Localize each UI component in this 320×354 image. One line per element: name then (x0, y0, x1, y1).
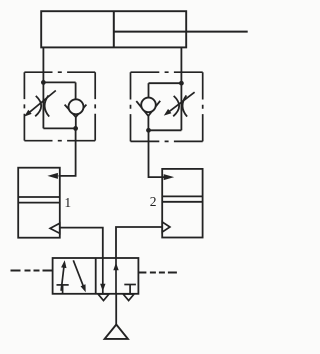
throttle adjustment arrow FC2 (168, 92, 195, 112)
flow control unit FC1 enclosure (dash-dot) (24, 71, 95, 73)
svg-text:2: 2 (150, 194, 157, 209)
box 2 outlet open arrow (162, 222, 170, 232)
directional valve V1 body (53, 258, 139, 294)
pressure source triangle (105, 325, 128, 339)
wire: FC2 inner bottom (149, 129, 182, 131)
wire: FC2 check branch top (148, 83, 150, 98)
exhaust triangle under V1 port 3 (98, 294, 109, 301)
wire: FC2 inner top (149, 82, 182, 84)
box 1 outlet open arrow (50, 223, 60, 233)
flow control unit FC2 enclosure (dash-dot) (131, 71, 203, 73)
V1 left actuator line (dash) (11, 270, 53, 272)
check valve seat in FC1 (65, 105, 87, 117)
wire: box 2 to valve port (116, 227, 162, 258)
wire: V1 supply port down (115, 294, 117, 325)
node: FC2 top junction (179, 81, 184, 86)
cylinder piston rod (114, 31, 248, 33)
box 1 inlet arrow (filled) (47, 173, 58, 179)
V1 right position exhaust path (down arrow) (102, 258, 104, 294)
box 2 inlet arrow (filled) (164, 174, 175, 180)
check valve ball in FC2 (141, 98, 156, 113)
V1 right position supply path (up arrow) (115, 258, 117, 294)
wire: below check valve FC2 (147, 115, 149, 130)
wire: FC1 outlet to box 1 (59, 128, 76, 176)
svg-text:1: 1 (64, 195, 71, 210)
wire: box 1 to valve port (60, 228, 103, 258)
check valve ball in FC1 (69, 99, 84, 114)
check valve seat in FC2 (136, 101, 160, 116)
wire: FC2 outlet to box 2 (149, 130, 165, 177)
V1 left position down-right arrow (73, 260, 84, 289)
valve box 2 body (162, 169, 202, 238)
V1 right actuator line (dash) (138, 272, 177, 274)
V1 right position blocked port T (124, 284, 136, 286)
wire: below check valve FC1 (75, 116, 77, 128)
V1 left position blocked port T (57, 284, 69, 286)
throttle valve (adjustable restrictor) in FC1 (35, 96, 41, 116)
throttle valve (adjustable restrictor) in FC2 (173, 96, 179, 116)
node: FC1 bottom junction (73, 126, 78, 131)
wire: FC1 inner bottom (43, 127, 75, 129)
wire: FC2 throttle branch (180, 83, 182, 130)
wire: FC1 throttle branch (42, 82, 44, 128)
exhaust triangle under V1 blocked port (123, 294, 134, 301)
cylinder body (41, 11, 186, 47)
node: FC1 top junction (41, 80, 46, 85)
node: FC2 bottom junction (146, 128, 151, 133)
V1 left position up arrow (61, 264, 64, 291)
wire: cylinder right port down (180, 47, 182, 83)
cylinder piston (113, 11, 115, 47)
throttle adjustment arrow FC1 (29, 91, 56, 113)
wire: FC1 inner top (43, 81, 75, 83)
wire: cylinder left port down (42, 47, 44, 82)
wire: FC1 check branch top (75, 82, 77, 100)
valve box 1 body (18, 168, 60, 238)
